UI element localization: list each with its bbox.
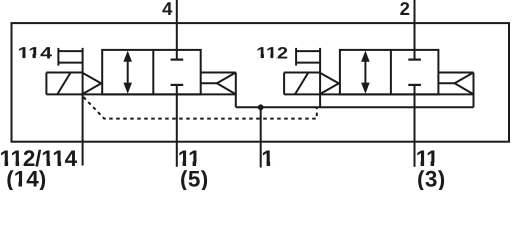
valve V2 pilot vertical line (112 channel) [319,48,321,107]
svg-text:1: 1 [261,146,274,171]
valve V1 blocked port 4 (T) [171,58,184,60]
valve V1 pilot port 114 symbol [58,48,82,66]
enclosure border [12,23,510,142]
valve V1 solenoid coil K1 [46,73,82,95]
valve V2 exhaust box [438,73,473,108]
port 2 line [414,0,416,60]
svg-text:4: 4 [162,0,173,19]
valve V2 pilot port 112 symbol [296,48,320,66]
pilot supply dashed line [83,97,316,119]
valve V2 body [340,50,439,95]
svg-text:(5): (5) [180,166,209,190]
valve V1 pilot vertical line (112/114 channel) [82,48,84,166]
port 4 line [176,0,178,60]
valve V2 bottom rail [284,93,473,95]
valve V1 body [102,50,201,95]
supply line port 1 [236,106,474,108]
valve V2 solenoid coil K2 [284,73,320,95]
valve V1 pilot triangle [83,73,102,94]
valve V2 flow arrow [361,51,370,94]
svg-text:112: 112 [256,44,288,62]
svg-text:(3): (3) [417,166,446,190]
node junction [258,104,264,110]
valve V2 pilot triangle [320,73,339,94]
valve V1 exhaust box [201,73,236,108]
valve V2 blocked port 11 (T) [408,84,421,86]
svg-text:2: 2 [400,0,410,19]
digit style cleanup (remove foot serifs of "1") [1,54,439,187]
port 1 line [260,107,262,167]
valve V1 port 11(5) line [176,85,178,167]
valve V1 blocked port 11 (T) [171,84,184,86]
valve V2 blocked port 2 (T) [408,58,421,60]
valve V1 bottom rail [46,93,235,95]
svg-text:114: 114 [17,44,53,62]
valve V2 port 11(3) line [414,85,416,167]
valve V1 flow arrow [123,51,132,94]
